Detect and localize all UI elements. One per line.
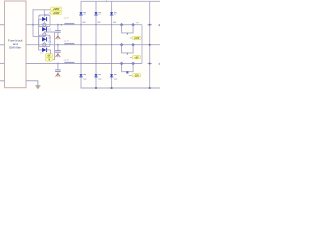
- diode D1 bridge: [42, 17, 47, 21]
- diode D4 bridge: [42, 48, 47, 52]
- inductor L2: [65, 44, 75, 45]
- svg-text:+162V: +162V: [53, 13, 60, 15]
- inductor L3: [65, 62, 75, 63]
- wire vertical branch B: [95, 1, 97, 88]
- wire bridge D1 anode stub: [39, 18, 43, 20]
- inductor L1: [65, 24, 75, 25]
- text net marks rail1 junctions: [82, 22, 116, 23]
- wire rail 2: [26, 44, 160, 46]
- node bridge terminal 3: [43, 43, 46, 46]
- text net mark right of filter rail1: [136, 22, 139, 23]
- svg-text:1mH: 1mH: [64, 17, 69, 20]
- text net stub rail3 right: [159, 63, 160, 65]
- svg-text:+325V: +325V: [53, 9, 60, 11]
- diode D2 bridge: [42, 27, 47, 31]
- filter loop rail2: [120, 43, 135, 55]
- svg-text:+5V: +5V: [134, 57, 139, 59]
- ground chassis rail1: [56, 36, 61, 39]
- label net top 2: [49, 11, 62, 15]
- svg-text:1N: 1N: [48, 41, 51, 44]
- earth ground PE: [35, 86, 40, 88]
- filter loop rail3: [120, 62, 135, 74]
- text net stub rail1 right: [159, 24, 160, 26]
- wire bridge column top link: [43, 10, 45, 17]
- wire rail 1 stub at output bus: [147, 24, 151, 26]
- wire AC line N in: [0, 44, 5, 46]
- node junctions right bus: [149, 24, 151, 65]
- wire bottom bus: [81, 87, 161, 89]
- svg-text:1mH: 1mH: [64, 40, 69, 43]
- svg-text:1mH: 1mH: [64, 59, 69, 62]
- svg-text:EMI filter: EMI filter: [9, 46, 21, 50]
- diode D5: [79, 12, 86, 15]
- diode D10: [110, 74, 117, 77]
- svg-text:BR1: BR1: [44, 14, 49, 17]
- wire rail 1: [26, 24, 142, 26]
- wire DC+ top (to label): [33, 10, 51, 37]
- filter loop rail1: [120, 23, 135, 35]
- wire vertical link rail1-rail3: [141, 25, 143, 64]
- text value marks below bottom diodes: [83, 78, 117, 79]
- component box thermistor unit B: [39, 35, 50, 46]
- svg-text:+12V: +12V: [134, 38, 140, 40]
- diode D3 bridge: [42, 37, 47, 41]
- fuse block and EMI filter box: [5, 1, 27, 88]
- wire top bus: [81, 0, 160, 2]
- label net +12V: [130, 36, 141, 40]
- label net bottom 1: [45, 54, 52, 58]
- node junctions bottom bus: [95, 87, 151, 89]
- node bridge AC tap: [32, 24, 34, 26]
- label net top 1: [51, 7, 62, 11]
- label net +5V: [130, 56, 141, 60]
- ground chassis rail2: [56, 54, 61, 57]
- component box thermistor unit A: [39, 15, 50, 27]
- node bridge terminal 1: [43, 23, 46, 26]
- wire bridge left bus: [39, 19, 43, 50]
- svg-text:0V: 0V: [48, 55, 51, 57]
- wire rail 3 stub at output bus: [147, 63, 151, 65]
- wire rail 3: [26, 63, 142, 65]
- ground chassis rail3: [56, 73, 61, 76]
- node rail1 coil lead: [61, 24, 63, 26]
- wire vertical output bus: [149, 1, 151, 88]
- node junctions rails x81/x96/x111: [80, 24, 112, 64]
- wire bridge lower-left feed: [33, 36, 44, 38]
- node bridge terminal 2: [43, 33, 46, 36]
- wire bridge column links: [43, 21, 45, 47]
- wire bridge mid tap: [44, 32, 54, 60]
- label net bottom 2: [45, 58, 52, 62]
- capacitor C1 rail1: [55, 24, 61, 36]
- label net -12V: [129, 74, 141, 78]
- wire vertical branch A: [80, 1, 82, 88]
- capacitor C2 rail2: [55, 44, 61, 54]
- wire PE to earth: [26, 81, 38, 86]
- wire AC line 2 in: [0, 62, 5, 64]
- diode D8: [79, 74, 86, 77]
- wire PE in: [0, 80, 5, 82]
- wire vertical branch C: [111, 1, 113, 88]
- diode D9: [94, 74, 101, 77]
- svg-text:-12V: -12V: [134, 75, 139, 77]
- diode D6: [94, 12, 101, 15]
- text stub top: [106, 0, 107, 3]
- wire AC line L in: [0, 24, 5, 26]
- diode D7: [110, 12, 117, 15]
- capacitor C3 rail3: [55, 63, 61, 74]
- wire bridge D4 out: [47, 50, 51, 54]
